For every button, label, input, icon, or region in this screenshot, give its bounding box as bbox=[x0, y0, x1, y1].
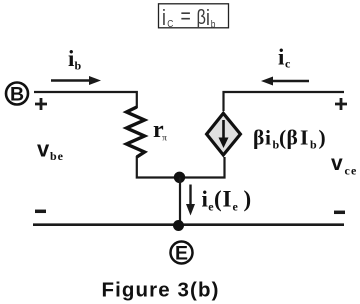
svg-text:i: i bbox=[162, 6, 166, 30]
junction dot on rail bbox=[173, 220, 184, 231]
wire junction down to emitter rail bbox=[179, 178, 181, 226]
equation box iC = beta ib bbox=[159, 4, 229, 31]
minus sign left (vbe -) bbox=[35, 210, 46, 214]
label ie(Ie) bbox=[202, 187, 252, 214]
label ic bbox=[278, 45, 291, 71]
svg-text:e: e bbox=[233, 200, 239, 214]
svg-text:ce: ce bbox=[345, 164, 358, 178]
svg-text:): ) bbox=[319, 126, 326, 150]
svg-text:Figure 3(b): Figure 3(b) bbox=[101, 279, 219, 302]
wire B to resistor top bbox=[34, 92, 137, 108]
svg-text:(: ( bbox=[279, 126, 286, 150]
svg-text:b: b bbox=[310, 138, 317, 152]
wire resistor bottom to current source bottom bbox=[137, 156, 225, 178]
svg-text:E: E bbox=[175, 242, 188, 264]
svg-text:β: β bbox=[196, 5, 205, 28]
current arrow ie bbox=[186, 185, 195, 216]
node B terminal circle bbox=[6, 83, 28, 106]
svg-text:β: β bbox=[253, 126, 264, 150]
svg-text:π: π bbox=[162, 133, 167, 143]
svg-text:(: ( bbox=[214, 187, 222, 212]
label vbe bbox=[37, 136, 64, 163]
svg-text:i: i bbox=[206, 6, 210, 30]
current arrow ib bbox=[51, 76, 101, 85]
svg-text:b: b bbox=[211, 19, 216, 31]
resistor r_pi zigzag bbox=[127, 107, 145, 157]
label vce bbox=[331, 152, 358, 178]
junction dot middle bbox=[174, 172, 185, 183]
svg-text:i: i bbox=[265, 126, 271, 150]
plus sign right (vce +) bbox=[335, 98, 347, 110]
svg-text:=: = bbox=[180, 5, 190, 29]
svg-text:C: C bbox=[167, 18, 173, 30]
svg-text:B: B bbox=[10, 83, 24, 105]
label r_pi bbox=[153, 117, 167, 143]
dependent current source diamond bbox=[207, 113, 241, 155]
svg-text:b: b bbox=[75, 59, 82, 73]
svg-text:i: i bbox=[278, 45, 285, 70]
plus sign left (vbe +) bbox=[35, 98, 47, 110]
svg-text:v: v bbox=[331, 152, 343, 175]
minus sign right (vce -) bbox=[334, 211, 345, 215]
node E terminal circle bbox=[171, 242, 193, 265]
label beta ib (beta Ib) bbox=[253, 126, 326, 152]
svg-text:v: v bbox=[37, 136, 50, 161]
svg-text:): ) bbox=[244, 187, 252, 212]
svg-text:I: I bbox=[300, 126, 308, 150]
emitter rail wire bbox=[33, 223, 344, 226]
svg-text:be: be bbox=[50, 149, 64, 163]
svg-text:I: I bbox=[223, 187, 232, 212]
current arrow ic bbox=[261, 77, 309, 86]
wire current source top to collector terminal bbox=[224, 92, 345, 111]
label ib bbox=[68, 46, 82, 73]
svg-text:c: c bbox=[285, 57, 291, 71]
svg-text:β: β bbox=[287, 126, 298, 150]
